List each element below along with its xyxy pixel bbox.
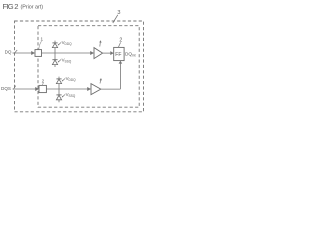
- enable arrow above buffer U2: [100, 78, 102, 83]
- clamp diode D1 to VDDQ: [52, 41, 57, 53]
- svg-text:FF: FF: [115, 52, 121, 58]
- wire pad to buffer (DQS row): [46, 87, 91, 91]
- wire pad to input buffer: [42, 51, 95, 55]
- clamp diode D2 to VSSQ: [52, 53, 57, 67]
- pad 2 (DQS pad): [39, 85, 46, 92]
- node DQ input label: [5, 49, 12, 54]
- input buffer U2 (DQS receiver): [91, 84, 101, 95]
- svg-text:DQint: DQint: [125, 52, 136, 58]
- svg-text:DQ: DQ: [5, 49, 12, 54]
- flip-flop FF: [114, 47, 124, 60]
- svg-text:VDDQ: VDDQ: [62, 40, 73, 46]
- pad 1 (DQ pad): [35, 50, 42, 57]
- chip outer boundary dashed box: [15, 21, 144, 112]
- label VSSQ (top row) with leader arrow: [58, 57, 72, 63]
- node DQint output label: [125, 52, 136, 58]
- clamp diode D4 to VSSQ (DQS row): [56, 89, 61, 102]
- clamp diode D3 to VDDQ (DQS row): [56, 77, 61, 89]
- input buffer U1 (DQ receiver): [94, 48, 103, 59]
- svg-text:2: 2: [119, 38, 122, 44]
- svg-text:VDDQ: VDDQ: [66, 76, 77, 82]
- wire DQ input to pad: [13, 50, 36, 55]
- reference numeral 3 with leader: [113, 10, 121, 23]
- label VSSQ (DQS row) with leader arrow: [62, 92, 76, 98]
- svg-text:VSSQ: VSSQ: [62, 57, 72, 63]
- label VDDQ (DQS row) with leader arrow: [62, 76, 77, 82]
- svg-text:1: 1: [41, 37, 44, 42]
- svg-text:(Prior art): (Prior art): [21, 5, 44, 11]
- reference numeral 2 with leader (FF): [118, 38, 122, 48]
- svg-text:DQS: DQS: [1, 86, 11, 91]
- reference numeral 2 with leader (DQS pad): [42, 79, 45, 86]
- svg-text:VSSQ: VSSQ: [66, 92, 76, 98]
- svg-text:FIG 2: FIG 2: [3, 2, 19, 11]
- figure title FIG 2 (Prior art): [3, 2, 44, 11]
- node DQS input label: [1, 86, 11, 91]
- enable arrow above buffer U1: [99, 40, 101, 46]
- wire buffer U2 output to FF clock: [101, 61, 122, 90]
- interface inner boundary dashed box: [38, 26, 139, 108]
- reference numeral 1 with leader (DQ pad): [39, 37, 44, 49]
- label VDDQ (top row) with leader arrow: [58, 40, 73, 46]
- wire DQS input to pad: [13, 86, 39, 91]
- wire buffer U1 to FF D input: [103, 51, 114, 55]
